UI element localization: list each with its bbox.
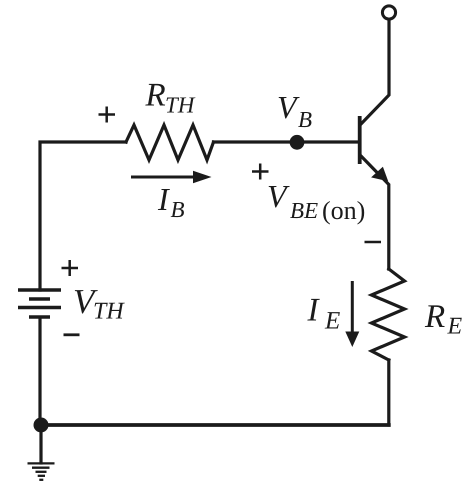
- transistor Q1 (npn) base bar: [358, 116, 362, 164]
- wire: emitter lead down to R_E: [361, 156, 389, 269]
- current arrow I_B: [131, 171, 212, 184]
- resistor R_TH: [126, 125, 214, 160]
- wire: top-left horizontal from left rail to R_TH: [40, 142, 126, 290]
- wire: R_E bottom down: [387, 360, 390, 425]
- wire: junction dot to ground symbol: [39, 425, 42, 463]
- current arrow I_E: [345, 281, 359, 347]
- label - (battery bottom): [64, 333, 80, 336]
- label + (left of R_TH): [99, 107, 116, 123]
- wire: bottom ground rail: [41, 423, 389, 427]
- label I_E: [307, 299, 339, 329]
- transistor Q1 emitter arrowhead: [371, 167, 388, 182]
- label R_E: [425, 305, 462, 333]
- label I_B: [158, 189, 184, 217]
- label + (battery top): [62, 260, 79, 276]
- battery V_TH plates: [18, 290, 61, 317]
- label V_B: [279, 97, 312, 127]
- terminal (open circle, collector output): [382, 6, 395, 19]
- node: ground junction dot: [34, 418, 49, 433]
- wire: battery bottom to ground rail: [38, 318, 41, 425]
- label V_TH: [75, 290, 125, 318]
- label + (above V_BE): [252, 164, 269, 180]
- label V_BE(on): [269, 186, 365, 224]
- label R_TH: [145, 84, 195, 113]
- node: V_B junction dot: [290, 135, 305, 150]
- resistor R_E: [372, 269, 405, 360]
- wire: collector lead up to terminal: [361, 20, 389, 124]
- ground: [28, 463, 55, 479]
- label - (below V_BE): [365, 241, 382, 244]
- wire: R_TH to transistor base: [214, 140, 359, 143]
